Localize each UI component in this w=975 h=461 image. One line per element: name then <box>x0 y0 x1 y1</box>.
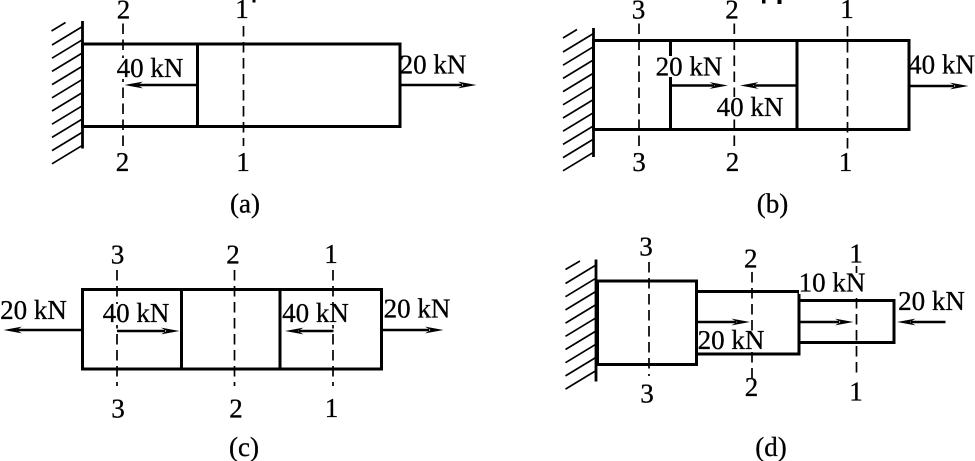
svg-text:20 kN: 20 kN <box>400 50 467 80</box>
svg-text:1: 1 <box>235 0 249 24</box>
svg-text:3: 3 <box>632 147 646 177</box>
svg-text:1: 1 <box>324 239 338 269</box>
label 20 kN middle (d) <box>698 331 764 352</box>
segment divider left (b) <box>669 41 672 130</box>
force arrow 20 kN left end (c) <box>4 327 83 334</box>
svg-text:10 kN: 10 kN <box>799 268 866 298</box>
svg-text:2: 2 <box>229 394 243 424</box>
label 40 kN left (c) <box>103 304 169 325</box>
svg-text:1: 1 <box>839 147 853 177</box>
top-edge remnant marks (b) <box>762 0 782 4</box>
svg-text:(c): (c) <box>229 432 259 461</box>
force arrow 40 kN right end (b) <box>909 83 969 90</box>
wall hatching (a) <box>52 23 83 164</box>
segment divider (a) <box>196 44 199 127</box>
svg-text:1: 1 <box>236 147 250 177</box>
svg-text:40 kN: 40 kN <box>103 298 170 328</box>
section line 2-2 (b) <box>733 24 735 149</box>
top-edge remnant mark near 1 (a) <box>253 0 256 3</box>
label 40 kN right (c) <box>282 304 348 325</box>
section line 2-2 (d) <box>751 272 753 378</box>
bar segment 3 outline (d) <box>799 301 894 343</box>
section line 1-1 (c) <box>332 270 334 386</box>
svg-text:40 kN: 40 kN <box>117 53 184 83</box>
svg-text:20 kN: 20 kN <box>898 286 965 316</box>
svg-text:20 kN: 20 kN <box>656 52 723 82</box>
bar segment 2 outline (d) <box>697 292 800 355</box>
svg-text:2: 2 <box>744 244 758 274</box>
section line 2-2 (a) <box>122 24 124 147</box>
svg-text:2: 2 <box>725 0 739 25</box>
bar outline (b) <box>594 41 910 130</box>
section line 1-1 (a) <box>243 26 245 146</box>
wall line (d) <box>595 260 598 382</box>
segment divider right (c) <box>279 290 282 370</box>
svg-text:1: 1 <box>325 393 339 423</box>
section line 1-1 (d) <box>856 266 858 374</box>
svg-text:3: 3 <box>639 232 653 262</box>
svg-text:1: 1 <box>849 239 863 269</box>
label 40 kN middle (b) <box>717 97 783 118</box>
svg-text:40 kN: 40 kN <box>908 50 975 80</box>
force arrow 40 kN rightward (c) <box>117 328 180 335</box>
svg-text:2: 2 <box>116 147 130 177</box>
svg-text:2: 2 <box>745 372 759 402</box>
segment divider left (c) <box>180 290 183 370</box>
force arrow 20 kN (a) <box>400 82 477 89</box>
wall hatching (b) <box>563 30 594 171</box>
force arrow 40 kN (a) <box>125 82 198 89</box>
wall line (b) <box>592 28 595 157</box>
bar outline (c) <box>83 290 382 370</box>
figure (b) group <box>563 0 975 219</box>
section line 3-3 (c) <box>116 270 118 386</box>
svg-text:40 kN: 40 kN <box>717 92 784 122</box>
section line 1-1 (b) <box>847 26 849 149</box>
figure (d) group <box>566 232 965 461</box>
force arrow 40 kN leftward (b) <box>740 82 797 89</box>
force arrow 20 kN rightward (b) <box>671 82 729 89</box>
label 10 kN (d) <box>799 273 865 294</box>
svg-text:(b): (b) <box>757 189 788 219</box>
bar segment 1 outline (d) <box>598 281 697 365</box>
svg-text:3: 3 <box>111 394 125 424</box>
wall hatching (d) <box>566 261 597 389</box>
force arrow 20 kN middle segment (d) <box>697 319 751 326</box>
svg-text:2: 2 <box>117 0 131 25</box>
section line 3-3 (d) <box>648 262 650 376</box>
svg-text:40 kN: 40 kN <box>282 298 349 328</box>
label 40 kN (a) <box>117 58 183 79</box>
figure (a) group <box>52 0 477 219</box>
svg-text:1: 1 <box>849 377 863 407</box>
svg-text:1: 1 <box>840 0 854 24</box>
section line 2-2 (c) <box>234 270 236 386</box>
svg-text:(a): (a) <box>230 189 260 219</box>
svg-text:3: 3 <box>632 0 646 25</box>
force arrow 20 kN right end (c) <box>382 327 444 334</box>
svg-text:2: 2 <box>726 147 740 177</box>
figure (c) group <box>0 239 450 461</box>
svg-text:(d): (d) <box>755 432 786 461</box>
svg-text:20 kN: 20 kN <box>0 295 67 325</box>
svg-text:2: 2 <box>226 240 240 270</box>
svg-text:20 kN: 20 kN <box>698 325 765 355</box>
force arrow 20 kN right end leftward (d) <box>897 319 946 326</box>
wall line (a) <box>81 21 84 149</box>
bar outline (a) <box>83 44 401 127</box>
segment divider right (b) <box>796 41 799 130</box>
svg-text:20 kN: 20 kN <box>384 294 451 324</box>
section line 3-3 (b) <box>638 24 640 149</box>
svg-text:3: 3 <box>111 240 125 270</box>
label 20 kN (b) <box>656 56 722 77</box>
force arrow 40 kN leftward (c) <box>285 328 334 335</box>
svg-text:3: 3 <box>640 379 654 409</box>
force arrow 10 kN small segment (d) <box>799 319 854 326</box>
